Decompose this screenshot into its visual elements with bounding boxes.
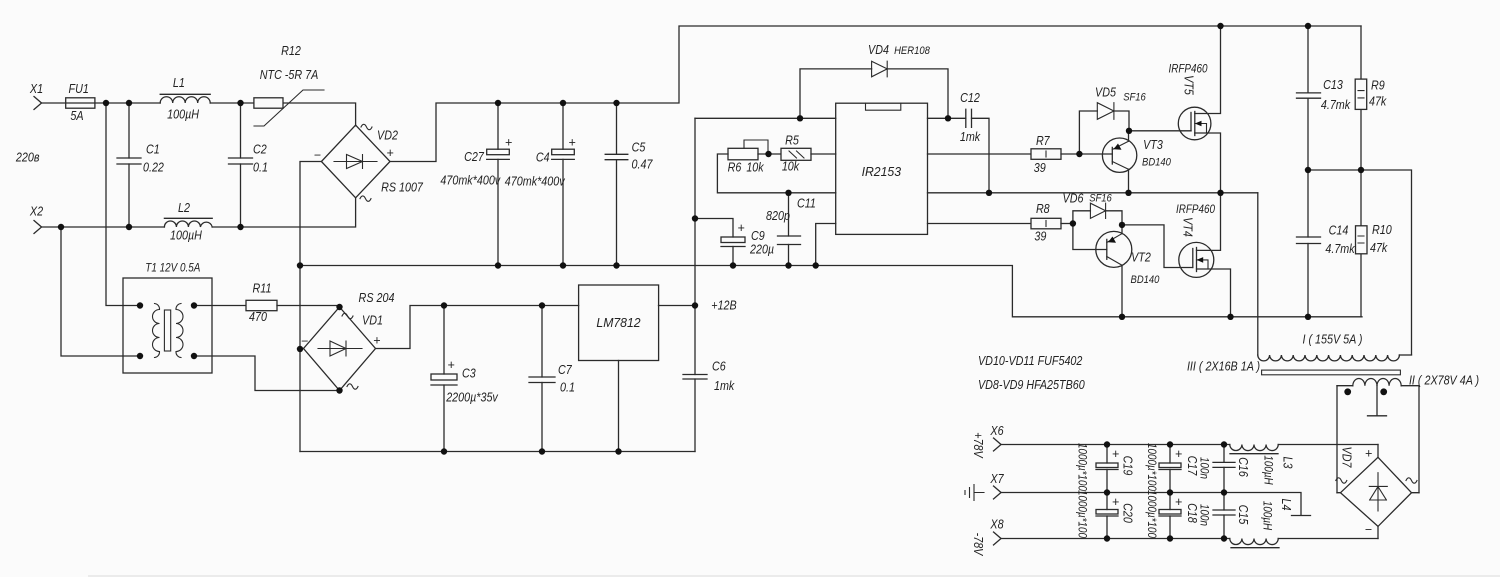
svg-text:R5: R5 bbox=[785, 134, 799, 148]
svg-text:VT3: VT3 bbox=[1143, 138, 1163, 152]
svg-text:L4: L4 bbox=[1279, 499, 1293, 511]
svg-text:0.1: 0.1 bbox=[560, 381, 575, 395]
svg-text:4.7mk: 4.7mk bbox=[1321, 98, 1351, 112]
svg-text:X6: X6 bbox=[990, 424, 1004, 438]
svg-text:RS 1007: RS 1007 bbox=[381, 181, 424, 195]
svg-text:0.47: 0.47 bbox=[632, 158, 654, 172]
svg-text:C5: C5 bbox=[632, 141, 646, 155]
svg-text:VT4: VT4 bbox=[1181, 217, 1195, 237]
svg-text:100µH: 100µH bbox=[167, 108, 200, 122]
svg-text:C4: C4 bbox=[536, 151, 550, 165]
svg-text:RS 204: RS 204 bbox=[359, 291, 395, 305]
svg-text:C14: C14 bbox=[1329, 224, 1349, 238]
svg-text:1000µ*100: 1000µ*100 bbox=[1076, 490, 1088, 539]
svg-text:+: + bbox=[1112, 495, 1119, 509]
svg-text:+78V: +78V bbox=[971, 432, 985, 459]
svg-text:5A: 5A bbox=[70, 109, 83, 123]
svg-text:VD5: VD5 bbox=[1095, 86, 1116, 100]
svg-text:I ( 155V 5A ): I ( 155V 5A ) bbox=[1303, 333, 1363, 347]
svg-text:VD7: VD7 bbox=[1339, 447, 1353, 469]
svg-text:+: + bbox=[373, 334, 380, 348]
svg-text:+: + bbox=[568, 136, 575, 150]
svg-text:NTC -5R 7A: NTC -5R 7A bbox=[260, 68, 319, 82]
svg-text:0.22: 0.22 bbox=[143, 161, 164, 175]
svg-text:470: 470 bbox=[249, 310, 267, 324]
svg-text:820p: 820p bbox=[766, 209, 790, 223]
svg-text:+: + bbox=[1175, 495, 1182, 509]
svg-text:R9: R9 bbox=[1371, 79, 1385, 93]
svg-text:L3: L3 bbox=[1281, 457, 1295, 469]
svg-text:C7: C7 bbox=[558, 363, 573, 377]
svg-text:L1: L1 bbox=[173, 76, 185, 90]
svg-text:-78V: -78V bbox=[971, 533, 985, 557]
svg-text:C20: C20 bbox=[1121, 503, 1135, 523]
svg-text:R7: R7 bbox=[1036, 134, 1051, 148]
svg-text:X1: X1 bbox=[29, 82, 43, 96]
svg-text:0.1: 0.1 bbox=[253, 161, 268, 175]
svg-text:VD8-VD9 HFA25TB60: VD8-VD9 HFA25TB60 bbox=[978, 378, 1085, 392]
svg-text:R10: R10 bbox=[1372, 223, 1392, 237]
svg-text:100n: 100n bbox=[1198, 457, 1210, 479]
svg-text:1mk: 1mk bbox=[960, 130, 981, 144]
svg-text:L2: L2 bbox=[178, 201, 190, 215]
svg-text:100n: 100n bbox=[1198, 504, 1210, 526]
svg-text:4.7mk: 4.7mk bbox=[1325, 242, 1355, 256]
svg-text:+: + bbox=[1365, 447, 1372, 461]
svg-text:+: + bbox=[737, 221, 744, 235]
svg-text:C11: C11 bbox=[797, 197, 816, 211]
svg-text:IRFP460: IRFP460 bbox=[1169, 64, 1209, 76]
svg-text:FU1: FU1 bbox=[69, 82, 89, 96]
svg-text:47k: 47k bbox=[1369, 95, 1387, 109]
svg-text:BD140: BD140 bbox=[1131, 274, 1161, 286]
svg-text:C17: C17 bbox=[1185, 456, 1199, 477]
svg-text:HER108: HER108 bbox=[894, 45, 931, 57]
svg-text:C16: C16 bbox=[1236, 457, 1250, 477]
svg-text:220в: 220в bbox=[15, 151, 40, 165]
svg-text:R6: R6 bbox=[728, 161, 742, 175]
svg-text:R12: R12 bbox=[281, 44, 301, 58]
svg-text:+: + bbox=[1175, 447, 1182, 461]
svg-text:T1 12V 0.5A: T1 12V 0.5A bbox=[145, 263, 200, 275]
svg-text:C12: C12 bbox=[960, 91, 980, 105]
svg-text:47k: 47k bbox=[1370, 241, 1388, 255]
svg-text:1000µ*100: 1000µ*100 bbox=[1145, 490, 1157, 539]
svg-text:C1: C1 bbox=[146, 143, 160, 157]
svg-text:–: – bbox=[301, 334, 309, 348]
svg-text:10k: 10k bbox=[782, 160, 800, 174]
svg-text:VD4: VD4 bbox=[868, 43, 889, 57]
svg-text:100µH: 100µH bbox=[170, 229, 203, 243]
svg-text:–: – bbox=[1365, 522, 1373, 536]
svg-text:100µH: 100µH bbox=[1262, 455, 1274, 485]
svg-text:LM7812: LM7812 bbox=[596, 315, 641, 330]
svg-text:VT2: VT2 bbox=[1131, 251, 1151, 265]
svg-text:SF16: SF16 bbox=[1123, 92, 1146, 104]
svg-text:VD10-VD11 FUF5402: VD10-VD11 FUF5402 bbox=[978, 354, 1082, 368]
svg-text:1mk: 1mk bbox=[714, 379, 735, 393]
svg-text:C2: C2 bbox=[253, 143, 267, 157]
svg-text:1000µ*100: 1000µ*100 bbox=[1145, 443, 1157, 492]
svg-text:SF16: SF16 bbox=[1089, 193, 1112, 205]
svg-text:C19: C19 bbox=[1121, 456, 1135, 476]
svg-text:+: + bbox=[447, 358, 454, 372]
svg-text:X7: X7 bbox=[990, 472, 1005, 486]
svg-text:10k: 10k bbox=[746, 161, 764, 175]
svg-text:R11: R11 bbox=[253, 282, 272, 296]
svg-text:470mk*400v: 470mk*400v bbox=[440, 174, 500, 188]
svg-text:C18: C18 bbox=[1185, 503, 1199, 523]
svg-text:VD1: VD1 bbox=[362, 314, 383, 328]
svg-text:III ( 2X16B 1A ): III ( 2X16B 1A ) bbox=[1187, 360, 1260, 374]
svg-text:C3: C3 bbox=[462, 367, 476, 381]
svg-text:VD2: VD2 bbox=[377, 129, 398, 143]
svg-text:X2: X2 bbox=[29, 205, 43, 219]
svg-text:BD140: BD140 bbox=[1142, 157, 1172, 169]
svg-text:+: + bbox=[505, 136, 512, 150]
svg-text:VT5: VT5 bbox=[1182, 75, 1196, 95]
svg-text:39: 39 bbox=[1034, 230, 1046, 244]
svg-text:IR2153: IR2153 bbox=[862, 164, 902, 179]
svg-text:+12B: +12B bbox=[711, 299, 736, 313]
svg-text:100µH: 100µH bbox=[1261, 501, 1273, 531]
svg-text:X8: X8 bbox=[990, 518, 1004, 532]
svg-text:C6: C6 bbox=[712, 360, 726, 374]
svg-text:VD6: VD6 bbox=[1063, 192, 1084, 206]
svg-text:C13: C13 bbox=[1323, 78, 1343, 92]
svg-text:2200µ*35v: 2200µ*35v bbox=[445, 391, 498, 405]
svg-text:470mk*400v: 470mk*400v bbox=[505, 175, 565, 189]
svg-text:220µ: 220µ bbox=[749, 243, 774, 257]
svg-text:R8: R8 bbox=[1036, 202, 1050, 216]
svg-text:C9: C9 bbox=[751, 229, 765, 243]
svg-text:C15: C15 bbox=[1236, 505, 1250, 525]
svg-text:IRFP460: IRFP460 bbox=[1176, 204, 1216, 216]
svg-text:39: 39 bbox=[1034, 161, 1046, 175]
svg-text:1000µ*100: 1000µ*100 bbox=[1076, 443, 1088, 492]
svg-text:+: + bbox=[1112, 447, 1119, 461]
svg-text:–: – bbox=[314, 148, 322, 162]
svg-text:C27: C27 bbox=[464, 150, 485, 164]
svg-text:+: + bbox=[386, 146, 393, 160]
